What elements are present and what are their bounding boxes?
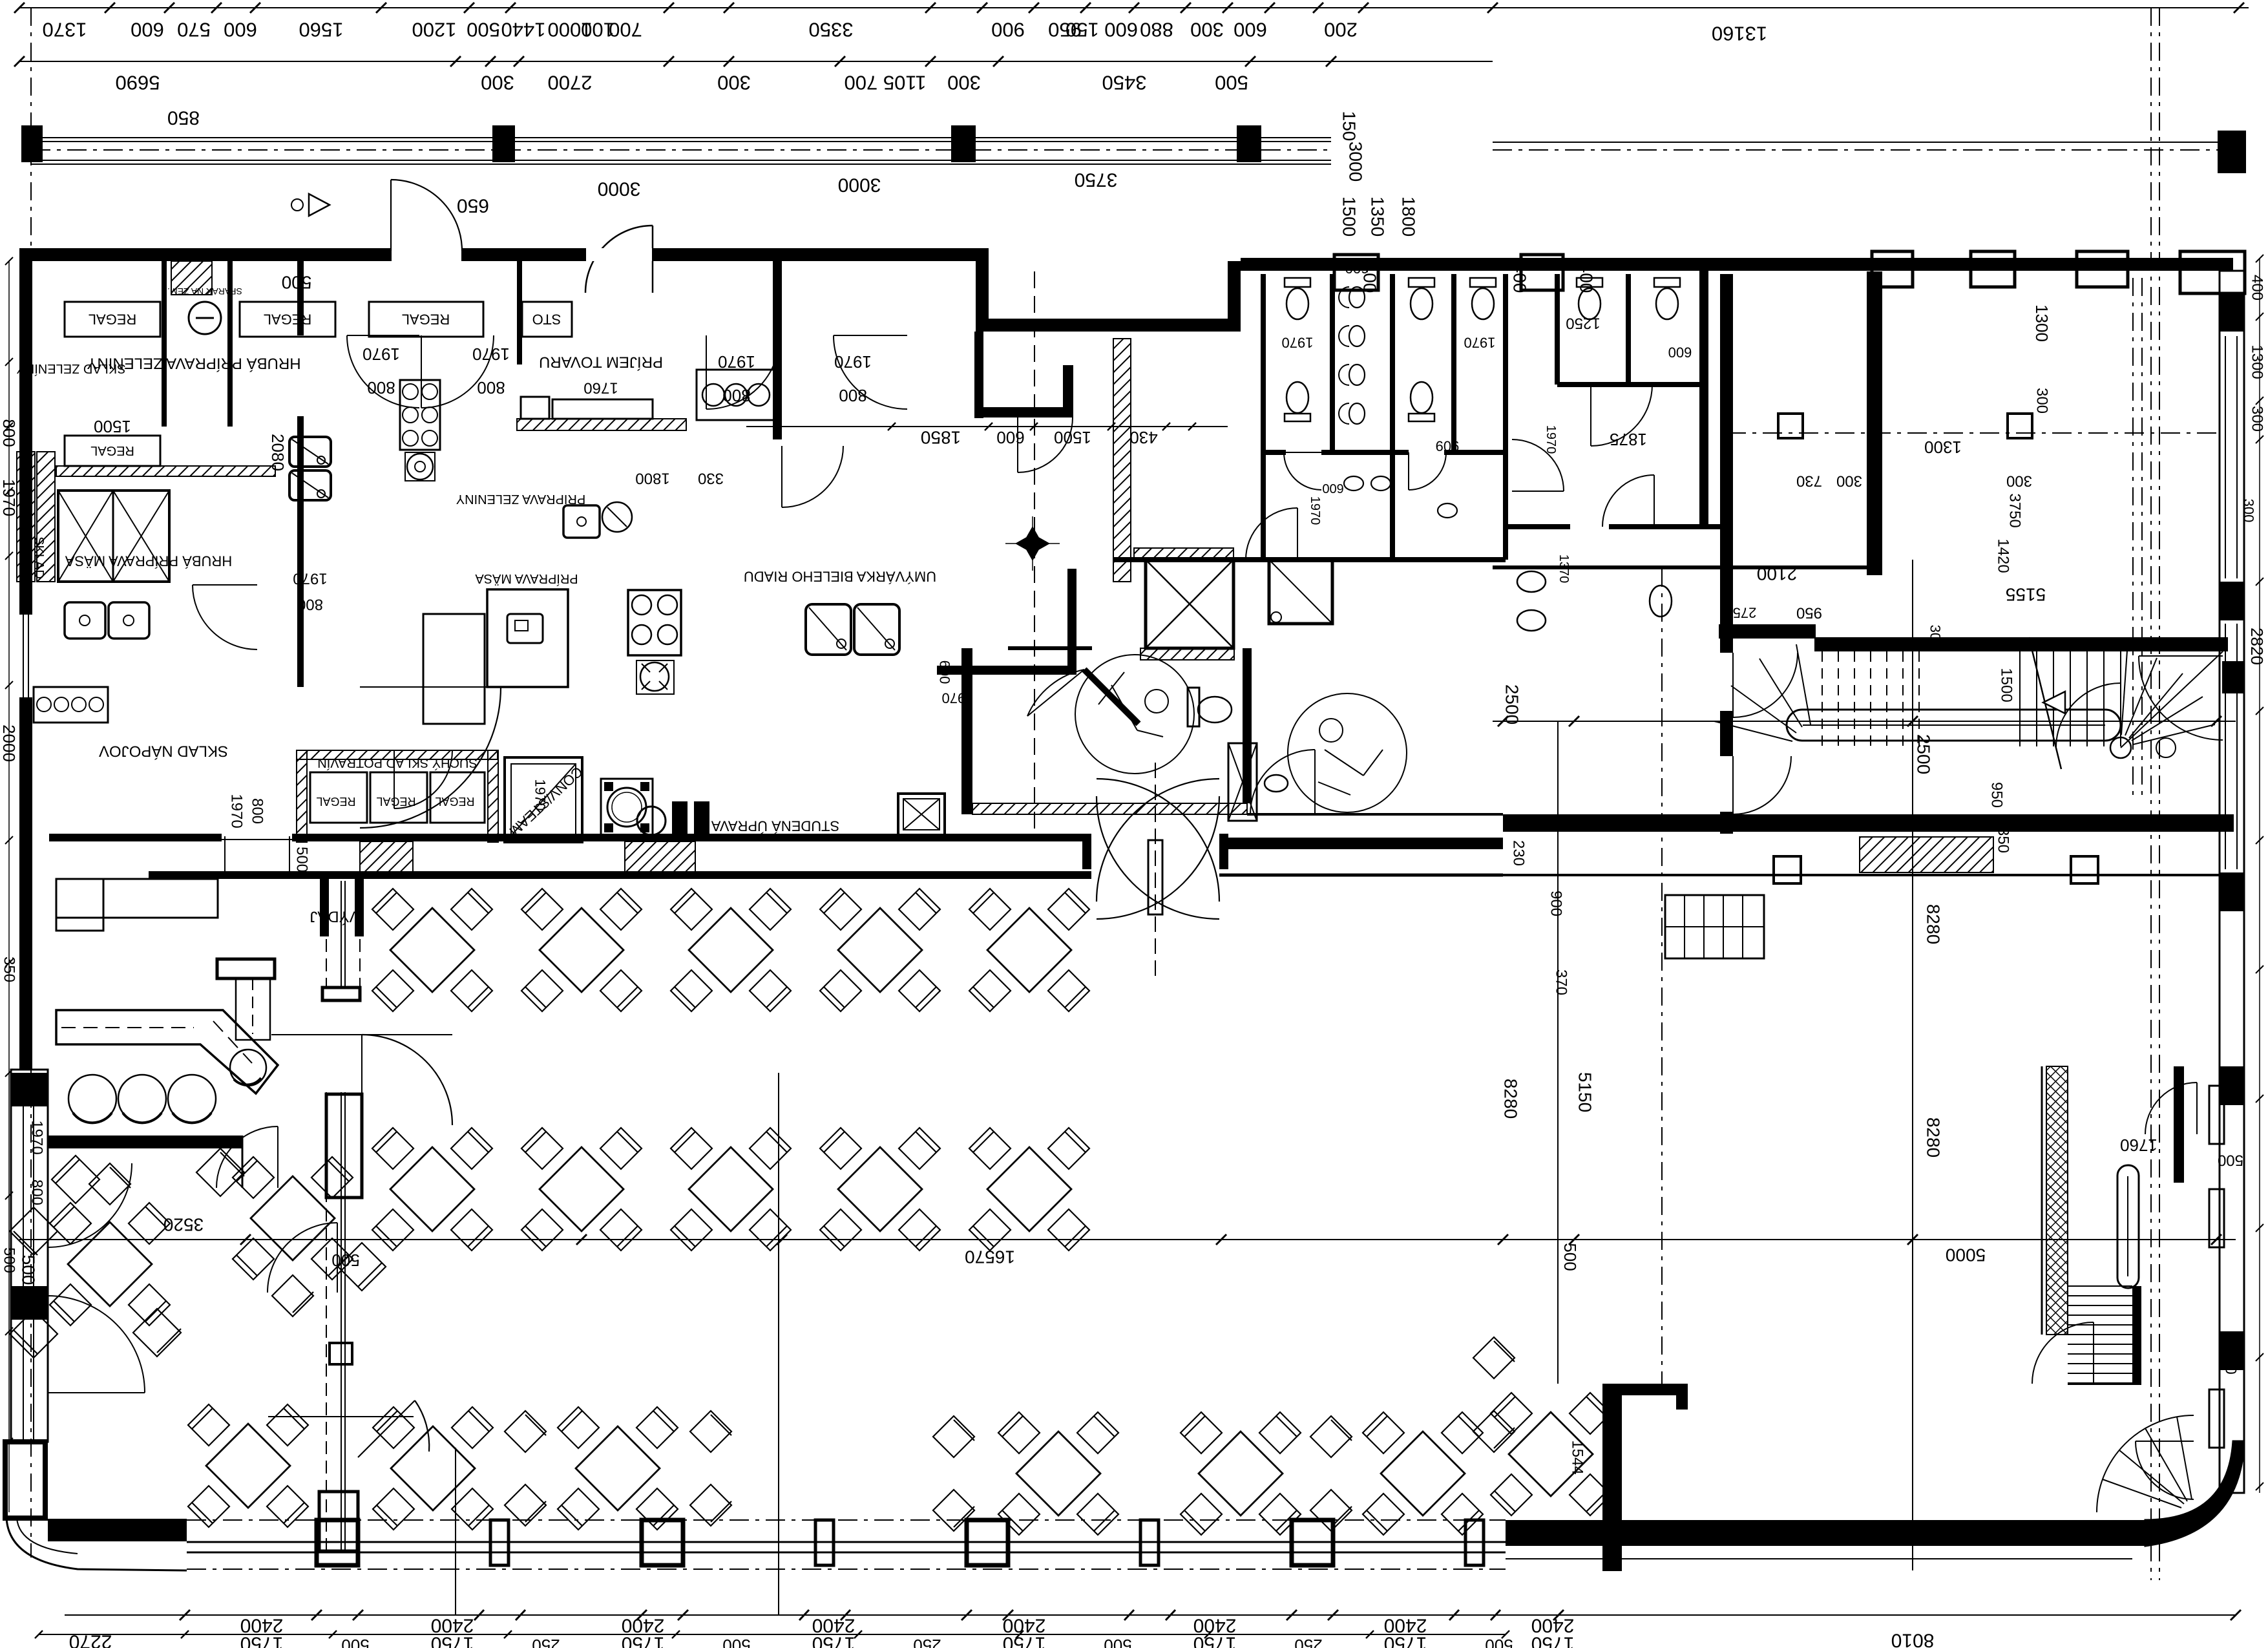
svg-text:880: 880 <box>1140 19 1173 41</box>
svg-text:800: 800 <box>839 386 866 405</box>
svg-text:3750: 3750 <box>2006 493 2024 527</box>
svg-text:800: 800 <box>0 419 19 447</box>
svg-text:1200: 1200 <box>412 19 457 41</box>
svg-text:1970: 1970 <box>1464 335 1496 351</box>
svg-text:500: 500 <box>341 1636 369 1648</box>
svg-text:500: 500 <box>1560 1243 1580 1271</box>
svg-text:730: 730 <box>1796 472 1822 490</box>
svg-text:1970: 1970 <box>28 1120 46 1154</box>
svg-text:250: 250 <box>1294 1636 1322 1648</box>
svg-text:8280: 8280 <box>1501 1079 1521 1119</box>
svg-text:1750: 1750 <box>431 1633 474 1648</box>
svg-text:HRUBÁ PRÍPRAVA MÄSA: HRUBÁ PRÍPRAVA MÄSA <box>65 553 233 569</box>
svg-text:800: 800 <box>367 378 395 397</box>
svg-text:1350: 1350 <box>1368 196 1388 237</box>
svg-text:150: 150 <box>1339 111 1360 142</box>
svg-text:1300: 1300 <box>2249 344 2266 379</box>
svg-text:500: 500 <box>1 1247 18 1273</box>
svg-text:REGAL: REGAL <box>90 443 134 458</box>
svg-text:1750: 1750 <box>1193 1633 1237 1648</box>
svg-text:REGAL: REGAL <box>264 312 312 328</box>
svg-text:600: 600 <box>1322 481 1343 495</box>
svg-text:1970: 1970 <box>362 344 400 364</box>
svg-text:300: 300 <box>1836 472 1862 490</box>
svg-text:1970: 1970 <box>1282 335 1314 351</box>
svg-text:2270: 2270 <box>69 1631 112 1648</box>
svg-text:1970: 1970 <box>834 352 872 372</box>
svg-text:1560: 1560 <box>299 19 344 41</box>
svg-text:300: 300 <box>2249 406 2266 432</box>
svg-text:250: 250 <box>913 1636 941 1648</box>
svg-text:250: 250 <box>532 1636 560 1648</box>
svg-text:2700: 2700 <box>548 72 593 94</box>
svg-text:1750: 1750 <box>2222 1340 2240 1374</box>
svg-text:3520: 3520 <box>163 1215 204 1235</box>
svg-text:950: 950 <box>1796 604 1822 622</box>
svg-text:1500: 1500 <box>94 417 131 436</box>
svg-text:330: 330 <box>698 470 724 487</box>
svg-text:1875: 1875 <box>1610 430 1647 449</box>
svg-text:300: 300 <box>2033 388 2051 414</box>
svg-text:800: 800 <box>477 378 505 397</box>
svg-text:600: 600 <box>1668 344 1692 361</box>
svg-text:500: 500 <box>1215 72 1248 94</box>
svg-text:SKLAD NÁPOJOV: SKLAD NÁPOJOV <box>99 743 228 760</box>
svg-text:1750: 1750 <box>1003 1633 1046 1648</box>
svg-text:3000: 3000 <box>598 178 641 200</box>
svg-text:1970: 1970 <box>1544 425 1558 454</box>
svg-text:600: 600 <box>131 19 164 41</box>
svg-text:1850: 1850 <box>921 428 961 448</box>
svg-text:1760: 1760 <box>583 379 618 397</box>
svg-text:300: 300 <box>1190 19 1224 41</box>
svg-text:1750: 1750 <box>622 1633 665 1648</box>
svg-text:1500: 1500 <box>1339 196 1360 237</box>
svg-text:STUDENÁ ÚPRAVA: STUDENÁ ÚPRAVA <box>711 818 839 834</box>
svg-text:1440: 1440 <box>501 19 546 41</box>
svg-text:3450: 3450 <box>1102 72 1147 94</box>
svg-text:REGAL: REGAL <box>89 312 137 328</box>
svg-text:13160: 13160 <box>1712 23 1767 45</box>
svg-text:3000: 3000 <box>1346 142 1366 182</box>
svg-text:1500: 1500 <box>1998 668 2015 702</box>
svg-text:300: 300 <box>717 72 751 94</box>
svg-text:2100: 2100 <box>1757 564 1797 584</box>
svg-text:900: 900 <box>991 19 1025 41</box>
svg-text:SPARAK NA ZEM.: SPARAK NA ZEM. <box>167 286 242 297</box>
svg-text:STO: STO <box>532 312 562 328</box>
svg-text:5155: 5155 <box>2006 585 2046 605</box>
svg-text:800: 800 <box>249 798 266 824</box>
svg-text:SKLAD ZELENÍNY: SKLAD ZELENÍNY <box>17 361 126 376</box>
svg-text:300: 300 <box>1927 625 1944 649</box>
svg-text:1800: 1800 <box>635 470 669 487</box>
svg-text:900: 900 <box>1548 891 1565 916</box>
svg-text:570: 570 <box>177 19 211 41</box>
svg-text:200: 200 <box>1324 19 1358 41</box>
svg-text:2500: 2500 <box>1914 734 1934 774</box>
svg-text:3350: 3350 <box>809 19 854 41</box>
svg-text:700: 700 <box>609 19 642 41</box>
svg-text:SUCHÝ SKLAD POTRAVÍN: SUCHÝ SKLAD POTRAVÍN <box>317 755 477 770</box>
svg-text:300: 300 <box>481 72 514 94</box>
svg-text:5690: 5690 <box>116 72 160 94</box>
svg-text:VÝDAJ: VÝDAJ <box>310 908 359 925</box>
svg-text:1300: 1300 <box>1924 438 1962 457</box>
svg-text:650: 650 <box>457 195 489 217</box>
svg-text:500: 500 <box>2218 1152 2243 1169</box>
svg-text:5000: 5000 <box>1946 1245 1986 1265</box>
svg-text:1420: 1420 <box>1995 538 2012 573</box>
svg-text:1250: 1250 <box>1566 315 1600 332</box>
svg-text:1750: 1750 <box>240 1633 284 1648</box>
svg-text:230: 230 <box>1510 840 1528 866</box>
svg-text:850: 850 <box>167 107 200 129</box>
svg-text:800: 800 <box>297 596 323 613</box>
svg-text:430: 430 <box>1129 428 1157 447</box>
svg-text:1970: 1970 <box>532 779 549 811</box>
svg-text:300: 300 <box>2006 472 2032 490</box>
svg-text:1750: 1750 <box>1384 1633 1427 1648</box>
svg-text:8280: 8280 <box>1924 1117 1944 1157</box>
svg-text:600: 600 <box>1345 260 1369 277</box>
svg-text:3000: 3000 <box>838 174 881 196</box>
svg-text:2500: 2500 <box>1502 684 1522 724</box>
svg-text:275: 275 <box>1733 605 1757 621</box>
svg-text:1750: 1750 <box>812 1633 856 1648</box>
svg-text:2000: 2000 <box>0 724 19 762</box>
svg-text:1500: 1500 <box>1054 428 1091 447</box>
svg-text:500: 500 <box>331 1251 359 1270</box>
svg-text:300: 300 <box>947 72 981 94</box>
svg-text:PRÍPRAVA MÄSA: PRÍPRAVA MÄSA <box>475 571 578 586</box>
svg-text:REGAL: REGAL <box>402 312 450 328</box>
svg-text:500: 500 <box>19 1255 39 1285</box>
svg-text:500: 500 <box>293 847 311 872</box>
svg-text:370: 370 <box>1553 969 1570 995</box>
svg-text:500: 500 <box>1104 1636 1131 1648</box>
svg-text:1970: 1970 <box>228 794 246 828</box>
svg-text:350: 350 <box>1995 827 2012 853</box>
svg-text:800: 800 <box>28 1179 46 1205</box>
svg-text:400: 400 <box>2249 275 2266 301</box>
svg-text:950: 950 <box>1988 782 2006 808</box>
svg-text:16570: 16570 <box>965 1247 1015 1267</box>
svg-text:8280: 8280 <box>1924 904 1944 944</box>
svg-text:1970: 1970 <box>942 690 974 706</box>
svg-text:600 150: 600 150 <box>1066 19 1138 41</box>
svg-text:500: 500 <box>1485 1636 1513 1648</box>
svg-text:8010: 8010 <box>1891 1630 1935 1648</box>
svg-text:UMÝVÁRKA BIELEHO RIADU: UMÝVÁRKA BIELEHO RIADU <box>744 569 936 585</box>
svg-text:600: 600 <box>224 19 257 41</box>
svg-text:1300: 1300 <box>2032 304 2052 342</box>
svg-text:1750: 1750 <box>1531 1633 1575 1648</box>
svg-text:500: 500 <box>467 19 500 41</box>
svg-text:SKLAD: SKLAD <box>32 536 46 579</box>
svg-text:5150: 5150 <box>1575 1072 1595 1112</box>
svg-text:1370: 1370 <box>43 19 87 41</box>
svg-text:2820: 2820 <box>2247 628 2267 665</box>
svg-text:600: 600 <box>996 428 1024 447</box>
svg-text:600: 600 <box>937 660 953 684</box>
svg-text:3750: 3750 <box>1075 169 1118 191</box>
svg-text:1970: 1970 <box>293 570 327 587</box>
svg-text:909: 909 <box>1436 438 1460 454</box>
svg-text:1970: 1970 <box>472 344 510 364</box>
svg-text:1544: 1544 <box>1569 1440 1586 1474</box>
svg-text:600: 600 <box>1234 19 1267 41</box>
svg-text:1105 700: 1105 700 <box>845 72 927 94</box>
svg-text:PRÍJEM TOVARU: PRÍJEM TOVARU <box>539 354 663 371</box>
svg-text:500: 500 <box>722 1636 750 1648</box>
svg-text:1760: 1760 <box>2120 1136 2158 1155</box>
svg-text:500: 500 <box>282 273 312 293</box>
svg-text:REGAL: REGAL <box>435 795 474 808</box>
svg-text:1800: 1800 <box>1399 196 1419 237</box>
svg-text:1970: 1970 <box>1308 496 1322 525</box>
svg-text:300: 300 <box>2241 499 2257 523</box>
svg-text:350: 350 <box>1 956 18 982</box>
svg-text:REGAL: REGAL <box>316 795 355 808</box>
svg-text:1970: 1970 <box>0 479 19 516</box>
